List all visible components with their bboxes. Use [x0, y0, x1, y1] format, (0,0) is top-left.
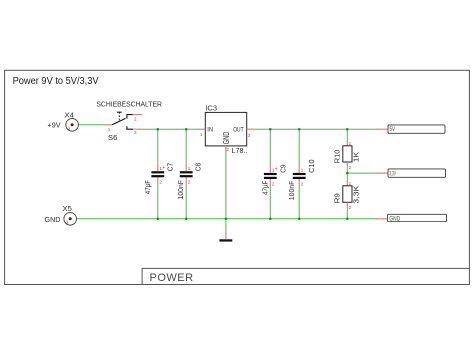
C9 pin 2 stub [269, 179, 271, 187]
junction C10 bottom [298, 218, 301, 221]
X4 circle [66, 119, 79, 132]
svg-text:2: 2 [159, 180, 162, 185]
svg-text:2: 2 [134, 116, 137, 121]
svg-text:5V: 5V [390, 126, 396, 133]
svg-text:R9: R9 [332, 193, 341, 203]
capacitor C8 [176, 163, 203, 200]
IC3 pin 2 stub [225, 146, 227, 153]
switch S6 [96, 100, 161, 142]
svg-text:1: 1 [200, 132, 203, 137]
S6 pin 2 stub [133, 114, 142, 116]
svg-text:OUT: OUT [233, 127, 243, 134]
R10 pin 1 stub [346, 140, 348, 146]
S6 pin 1 stub [106, 124, 112, 126]
svg-text:X5: X5 [63, 204, 72, 213]
wire C8 branch [185, 129, 187, 219]
svg-text:L78..: L78.. [232, 146, 248, 155]
svg-text:R10: R10 [332, 150, 341, 164]
svg-text:S6: S6 [108, 133, 117, 142]
svg-text:3: 3 [248, 133, 251, 138]
junction C9 top [269, 128, 272, 131]
svg-text:IC3: IC3 [205, 103, 217, 112]
svg-text:GND: GND [389, 216, 400, 222]
C8 pin 2 stub [185, 177, 187, 185]
svg-text:3,3V: 3,3V [389, 171, 396, 177]
svg-text:+9V: +9V [48, 121, 61, 130]
X5 pad dot [69, 217, 72, 220]
wire GND rail [77, 218, 378, 220]
C7 top plate [151, 171, 164, 173]
C7 pin 2 stub [157, 177, 159, 185]
svg-text:+: + [275, 167, 278, 173]
svg-text:1K: 1K [351, 152, 360, 163]
wire R9 bottom to GND rail [346, 208, 348, 219]
svg-text:IN: IN [207, 127, 213, 134]
svg-text:Power 9V to 5V/3,3V: Power 9V to 5V/3,3V [13, 76, 99, 87]
svg-text:3: 3 [134, 130, 137, 135]
resistor R9 [332, 180, 360, 210]
IC3 body [205, 112, 246, 145]
C10 pin 1 stub [298, 163, 300, 173]
voltage regulator IC3 [198, 103, 254, 154]
svg-text:2: 2 [349, 165, 352, 170]
C9 pin 1 stub [269, 163, 271, 173]
GND flag stub [376, 218, 387, 220]
3,3V flag stub [377, 172, 389, 174]
C8 pin 1 stub [185, 163, 187, 171]
junction C7 bottom [157, 218, 160, 221]
svg-text:GND: GND [45, 215, 61, 224]
wire IC3 GND pin to ground symbol [225, 153, 227, 231]
wire S6 pin 3 to IC3 IN [142, 128, 198, 130]
svg-text:C10: C10 [307, 159, 316, 173]
S6 pin 3 stub [133, 128, 142, 130]
net flag 5V [377, 125, 446, 133]
junction C8 bottom [185, 218, 188, 221]
ground pin stub [225, 232, 227, 239]
net flag GND [376, 214, 447, 222]
wire 5V rail to R10 top [346, 129, 348, 140]
wire IC3 OUT to 5V flag [254, 128, 377, 130]
R10 body [343, 146, 352, 162]
C9 bottom plate [264, 177, 277, 179]
frame border [5, 70, 470, 284]
svg-text:1: 1 [108, 127, 111, 132]
svg-text:C8: C8 [194, 163, 203, 171]
junction C9 bottom [269, 218, 272, 221]
wire node to 3,3V flag [347, 172, 377, 174]
connector X5 [45, 204, 77, 225]
svg-text:2: 2 [301, 181, 304, 186]
svg-text:SCHIEBESCHALTER: SCHIEBESCHALTER [96, 100, 161, 109]
connector X4 [48, 110, 79, 131]
resistor R10 [332, 140, 360, 170]
svg-text:2: 2 [272, 181, 275, 186]
5V flag box [388, 125, 445, 133]
svg-text:100nF: 100nF [176, 179, 185, 199]
junction node 3,3V [346, 172, 349, 175]
S6 actuator bar [117, 111, 122, 113]
svg-text:2: 2 [226, 147, 229, 152]
ground bar [219, 239, 232, 241]
svg-text:3,3K: 3,3K [351, 185, 360, 203]
wire C10 branch [298, 129, 300, 219]
C8 top plate [180, 171, 193, 173]
junction ground stem [225, 218, 228, 221]
X5 circle [64, 213, 77, 226]
S6 throw contact bottom [127, 126, 133, 129]
junction C10 top [298, 128, 301, 131]
C10 top plate [293, 173, 306, 175]
IC3 pin 1 stub [198, 128, 205, 130]
3,3V flag box [388, 169, 446, 177]
title block outline [142, 268, 469, 284]
svg-text:47µF: 47µF [143, 179, 152, 194]
svg-text:C9: C9 [278, 165, 287, 173]
R9 body [343, 186, 352, 203]
C8 bottom plate [180, 175, 193, 177]
wire R10 bottom to node [346, 167, 348, 180]
svg-text:100nF: 100nF [287, 180, 296, 200]
R9 pin 1 stub [346, 180, 348, 186]
ground [219, 232, 232, 242]
capacitor C7 [143, 163, 174, 194]
svg-text:2: 2 [349, 205, 352, 210]
GND flag box [387, 214, 446, 221]
svg-text:GND: GND [222, 131, 231, 144]
svg-text:POWER: POWER [150, 272, 194, 284]
C10 bottom plate [293, 177, 306, 179]
X4 pad dot [71, 123, 74, 126]
5V flag stub [377, 128, 389, 130]
IC3 pin 3 stub [247, 128, 255, 130]
svg-text:C7: C7 [165, 163, 174, 171]
wire C9 branch [269, 129, 271, 219]
C10 pin 2 stub [298, 179, 300, 187]
junction C8 top [185, 128, 188, 131]
C9 top plate [264, 173, 277, 175]
capacitor C10 [287, 159, 316, 200]
svg-text:47µF: 47µF [260, 180, 269, 195]
junction R9 bottom [346, 218, 349, 221]
R10 pin 2 stub [346, 162, 348, 167]
svg-text:1: 1 [68, 126, 71, 131]
junction C7 top [157, 128, 160, 131]
svg-text:1: 1 [301, 168, 304, 173]
S6 lever [112, 118, 125, 124]
wire C7 branch [157, 129, 159, 219]
capacitor C9 [260, 163, 287, 195]
R9 pin 2 stub [346, 202, 348, 207]
svg-text:2: 2 [188, 180, 191, 185]
S6 throw contact top [127, 115, 133, 119]
junction R10 top [346, 128, 349, 131]
C7 bottom plate [151, 175, 164, 177]
svg-text:1: 1 [188, 166, 191, 171]
svg-text:X4: X4 [65, 110, 74, 119]
S6 actuator dashed stem [118, 112, 120, 121]
C7 pin 1 stub [157, 163, 159, 171]
net flag 3,3V [377, 169, 446, 178]
wire X4 to S6 pin 1 [79, 124, 106, 126]
svg-text:1: 1 [66, 220, 69, 225]
